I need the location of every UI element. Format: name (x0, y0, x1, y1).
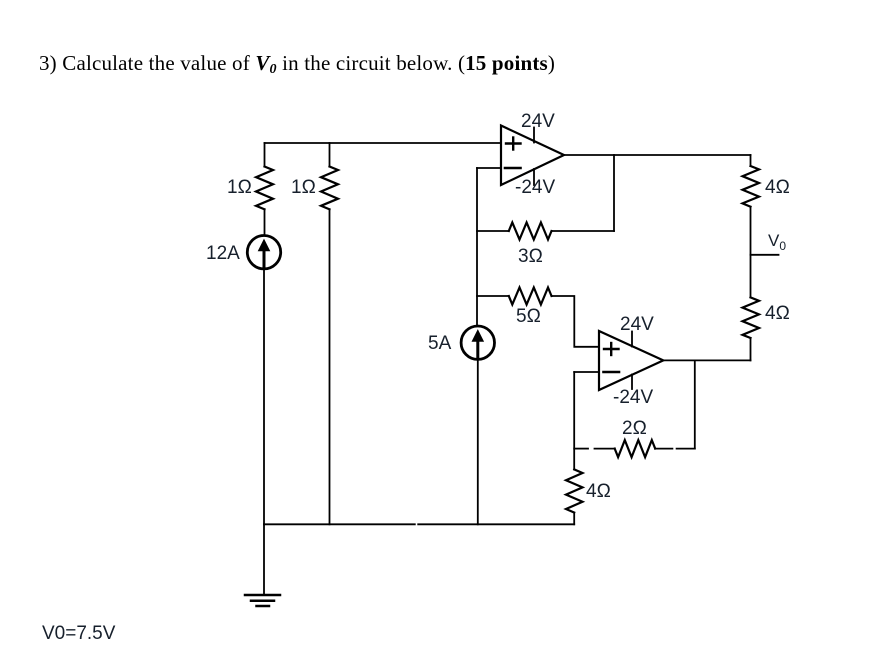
wire: 2 ohm left lead (595, 448, 615, 450)
svg-text:-24V: -24V (515, 177, 555, 198)
resistor R8 4ohm (right bottom, vertical) (743, 297, 760, 338)
wire: bottom rail right segment (418, 523, 574, 525)
op-amp U1 triangle (501, 126, 564, 186)
svg-text:1Ω: 1Ω (291, 177, 316, 198)
svg-text:1Ω: 1Ω (227, 177, 252, 198)
svg-text:3) Calculate the value of V0 i: 3) Calculate the value of V0 in the circ… (39, 51, 555, 77)
wire: 5 ohm left lead from column (477, 295, 509, 297)
op-amp U2 triangle (599, 331, 663, 390)
current source I1 12A circle (247, 236, 280, 269)
wire: R1 top stub (264, 143, 266, 167)
op-amp U2 plus symbol (604, 343, 619, 355)
current source I1 arrow (263, 251, 266, 267)
svg-text:5A: 5A (428, 333, 452, 354)
svg-text:4Ω: 4Ω (586, 481, 611, 502)
op-amp U2 minus symbol (604, 371, 620, 374)
resistor R3 3ohm (horizontal) (509, 223, 552, 240)
svg-text:3Ω: 3Ω (518, 246, 543, 267)
wire: 5A bottom to bottom rail (477, 360, 479, 525)
svg-text:24V: 24V (620, 314, 654, 335)
svg-text:4Ω: 4Ω (765, 177, 790, 198)
svg-text:4Ω: 4Ω (765, 303, 790, 324)
op-amp U1 -24V supply stub (533, 169, 535, 185)
wire: 2 ohm right dash (677, 448, 695, 450)
wire: R6 bottom to bottom rail (573, 513, 575, 525)
wire: R2 bottom to bottom rail (329, 209, 331, 524)
wire: bottom rail left segment (264, 523, 415, 525)
wire: 12A bottom to bottom rail (263, 269, 265, 524)
wire: right rail (top), R7 top lead (750, 155, 752, 166)
wire: U2 minus input lead (574, 371, 599, 373)
svg-text:24V: 24V (521, 111, 555, 132)
wire: right rail between R7 and Vo node (750, 207, 752, 298)
wire: column x=574 from U2 minus input down to 2 ohm node and R6 (573, 372, 575, 469)
op-amp U1 minus symbol (505, 167, 521, 170)
wire: 2 ohm right lead (655, 448, 672, 450)
op-amp U2 -24V supply stub (631, 375, 633, 390)
wire: feedback drop from output node down to 3 ohm (613, 155, 615, 231)
op-amp U1 +24V supply stub (533, 128, 535, 143)
wire: U1 minus input to feedback column (477, 167, 501, 169)
svg-text:2Ω: 2Ω (622, 418, 647, 439)
wire: top rail from node above R1 to op-amp U1 + input (265, 142, 502, 144)
wire: U1 output to right rail (564, 154, 751, 156)
wire: R2 top stub (329, 143, 331, 167)
node Vo stub (751, 254, 779, 256)
wire: feedback column x=477 from minus input down to 5A source (476, 168, 478, 326)
op-amp U2 +24V supply stub (631, 332, 633, 347)
wire: right rail bottom to U2 output line (750, 338, 752, 360)
wire: 2 ohm left dash from column (574, 448, 588, 450)
resistor R1 1ohm (left, vertical) (256, 167, 273, 210)
resistor R5 2ohm (horizontal) (615, 440, 656, 457)
wire: 3 ohm left lead to column (477, 230, 509, 232)
current source I2 5A circle (461, 326, 494, 359)
svg-text:5Ω: 5Ω (516, 306, 541, 327)
svg-text:12A: 12A (206, 243, 240, 264)
current source I2 arrow (476, 342, 479, 358)
wire: 5 ohm right lead, corner down, into U2 + input (552, 296, 600, 347)
svg-text:-24V: -24V (613, 387, 653, 408)
resistor R6 4ohm (bottom, vertical) (566, 469, 583, 512)
wire: R1 bottom to 12A source top (264, 209, 266, 234)
resistor R7 4ohm (right top, vertical) (743, 166, 760, 207)
wire: U2 output to right rail (663, 359, 750, 361)
wire: ground stem (263, 524, 265, 594)
ground symbol (245, 595, 280, 606)
resistor R2 1ohm (second, vertical) (321, 167, 338, 210)
resistor R4 5ohm (horizontal) (509, 288, 552, 305)
op-amp U1 plus symbol (506, 138, 521, 150)
wire: 3 ohm right lead (552, 230, 615, 232)
svg-text:V0=7.5V: V0=7.5V (42, 623, 116, 644)
wire: feedback drop from U2 output down to 2 ohm (694, 360, 696, 448)
